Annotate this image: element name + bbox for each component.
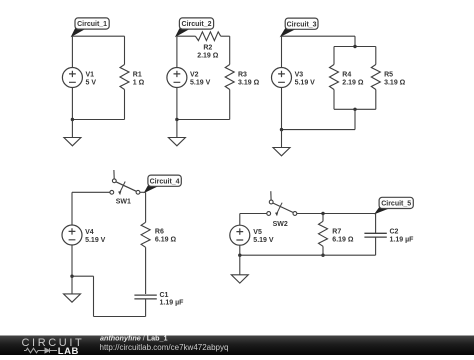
switch SW1 bbox=[113, 170, 115, 179]
svg-text:3.19 Ω: 3.19 Ω bbox=[384, 79, 406, 86]
svg-text:LAB: LAB bbox=[58, 346, 79, 355]
wire C3 top bbox=[282, 35, 356, 37]
wire C5 R7 bottom lead bbox=[322, 246, 324, 255]
wire C5 C2 top lead bbox=[375, 214, 377, 234]
svg-text:C2: C2 bbox=[390, 229, 399, 236]
wire C1 bottom bbox=[72, 119, 124, 121]
svg-text:http://circuitlab.com/ce7kw472: http://circuitlab.com/ce7kw472abpyq bbox=[100, 343, 229, 352]
wire C3 R5 bottom lead bbox=[375, 90, 377, 110]
resistor R6 bbox=[141, 222, 150, 247]
wire C4 bottom bbox=[94, 316, 146, 318]
switch SW2 bbox=[270, 191, 272, 200]
svg-text:R4: R4 bbox=[342, 71, 351, 78]
wire C3 left upper (V3 top lead) bbox=[281, 36, 283, 67]
wire C1 left upper (V1 top lead) bbox=[71, 36, 73, 67]
ground circuit3 bbox=[273, 148, 290, 156]
wire C3 ground stem bbox=[281, 130, 283, 148]
resistor R3 bbox=[225, 65, 234, 90]
junction R7 bottom node bbox=[321, 254, 324, 257]
wire C5 left upper (V5 top lead) bbox=[239, 214, 241, 226]
wire C4 right upper (R6 top lead) bbox=[145, 192, 147, 222]
voltage source V5 bbox=[230, 225, 250, 245]
svg-text:Circuit_3: Circuit_3 bbox=[287, 21, 317, 28]
junction circuit3 bottom node bbox=[280, 128, 283, 131]
svg-text:anthonyfine / Lab_1: anthonyfine / Lab_1 bbox=[100, 334, 168, 343]
svg-text:6.19 Ω: 6.19 Ω bbox=[332, 236, 354, 243]
svg-text:SW1: SW1 bbox=[116, 198, 131, 205]
junction circuit2 bottom node bbox=[175, 118, 178, 121]
wire C3 R4 top lead bbox=[333, 47, 335, 65]
wire C4 C1 bottom lead bbox=[145, 299, 147, 317]
svg-text:Circuit_4: Circuit_4 bbox=[150, 178, 180, 185]
svg-text:Circuit_5: Circuit_5 bbox=[381, 201, 411, 208]
wire C5 top-left lead to SW2 bbox=[240, 213, 267, 215]
resistor R4 bbox=[330, 65, 339, 90]
wire C1 right upper (R1 top lead) bbox=[124, 36, 126, 64]
wire C4 bottom to junction bbox=[72, 275, 94, 277]
wire C3 parallel bottom rail bbox=[334, 108, 376, 110]
wire C5 ground stem bbox=[239, 255, 241, 275]
wire C5 R7 top lead bbox=[322, 214, 324, 222]
wire C3 bottom bbox=[282, 129, 356, 131]
svg-text:V1: V1 bbox=[86, 71, 95, 78]
svg-text:1.19 µF: 1.19 µF bbox=[160, 300, 185, 307]
wire C4 top-left lead to SW1 bbox=[72, 191, 110, 193]
wire C1 right lower (R1 bottom lead) bbox=[124, 90, 126, 120]
wire C3 R5 top lead bbox=[375, 47, 377, 65]
wire C3 R4 bottom lead bbox=[333, 90, 335, 110]
svg-text:V4: V4 bbox=[85, 229, 94, 236]
wire C2 right lower (R3 bottom lead) bbox=[229, 90, 231, 120]
svg-text:SW2: SW2 bbox=[273, 221, 288, 228]
svg-text:Circuit_1: Circuit_1 bbox=[77, 21, 107, 28]
svg-text:5.19 V: 5.19 V bbox=[253, 237, 274, 244]
junction circuit1 bottom node bbox=[71, 118, 74, 121]
ground circuit1 bbox=[64, 138, 81, 146]
junction parallel bottom node bbox=[353, 108, 356, 111]
voltage source V2 bbox=[167, 68, 187, 88]
wire C4 left upper (V4 top lead) bbox=[71, 192, 73, 225]
svg-text:5.19 V: 5.19 V bbox=[295, 79, 316, 86]
node label Circuit_2 bbox=[176, 27, 189, 36]
svg-text:6.19 Ω: 6.19 Ω bbox=[155, 236, 177, 243]
wire C5 SW2 to R7 node bbox=[297, 213, 376, 215]
node label Circuit_5 bbox=[375, 206, 389, 213]
resistor R1 bbox=[120, 65, 129, 90]
voltage source V1 bbox=[62, 68, 82, 88]
svg-text:Circuit_2: Circuit_2 bbox=[182, 21, 212, 28]
junction circuit5 bottom node bbox=[238, 254, 241, 257]
resistor R2 bbox=[195, 32, 220, 41]
wire C2 top-right lead from R2 bbox=[221, 35, 230, 37]
ground circuit2 bbox=[168, 138, 185, 146]
wire C2 bottom bbox=[177, 119, 230, 121]
wire C3 left lower (V3 bottom lead) bbox=[281, 88, 283, 130]
ground circuit4 bbox=[64, 294, 81, 302]
CircuitLab logo mini-schematic (resistor and diode) bbox=[24, 348, 57, 353]
svg-text:1 Ω: 1 Ω bbox=[133, 79, 145, 86]
wire C2 left upper (V2 top lead) bbox=[176, 36, 178, 67]
svg-text:2.19 Ω: 2.19 Ω bbox=[342, 79, 364, 86]
voltage source V4 bbox=[62, 225, 82, 245]
resistor R5 bbox=[371, 65, 380, 90]
svg-text:R3: R3 bbox=[238, 71, 247, 78]
junction R7 top node bbox=[321, 212, 324, 215]
wire C4 R6 to C1 lead bbox=[145, 247, 147, 294]
svg-text:V2: V2 bbox=[190, 71, 199, 78]
wire C2 top-left lead to R2 bbox=[177, 35, 196, 37]
wire C1 top bbox=[72, 35, 124, 37]
wire C1 left lower (V1 bottom lead) bbox=[71, 88, 73, 120]
wire C3 drop from parallel bottom bbox=[354, 109, 356, 129]
svg-text:5 V: 5 V bbox=[86, 79, 97, 86]
node label Circuit_3 bbox=[281, 27, 295, 36]
svg-text:R7: R7 bbox=[332, 228, 341, 235]
capacitor C1 bbox=[134, 295, 156, 299]
junction parallel top node bbox=[353, 45, 356, 48]
resistor R7 bbox=[319, 221, 328, 246]
svg-text:5.19 V: 5.19 V bbox=[190, 79, 211, 86]
junction circuit4 bottom node bbox=[70, 275, 73, 278]
svg-text:R6: R6 bbox=[155, 228, 164, 235]
wire C4 ground stem bbox=[71, 276, 73, 294]
node label Circuit_1 bbox=[72, 27, 85, 36]
svg-text:5.19 V: 5.19 V bbox=[85, 237, 106, 244]
svg-text:C1: C1 bbox=[160, 292, 169, 299]
svg-text:V3: V3 bbox=[295, 71, 304, 78]
ground circuit5 bbox=[231, 275, 248, 283]
wire C2 left lower (V2 bottom lead) bbox=[176, 88, 178, 120]
wire C3 drop to parallel top bbox=[354, 36, 356, 46]
wire C4 SW1 to corner bbox=[140, 191, 146, 193]
svg-text:R5: R5 bbox=[384, 71, 393, 78]
svg-text:R1: R1 bbox=[133, 71, 142, 78]
node label Circuit_4 bbox=[145, 184, 158, 192]
wire C5 bottom bbox=[240, 254, 376, 256]
wire C2 right upper (R3 top lead) bbox=[229, 36, 231, 64]
wire C5 C2 bottom lead bbox=[375, 237, 377, 255]
wire C5 left lower (V5 bottom lead) bbox=[239, 245, 241, 255]
wire C3 parallel top rail bbox=[334, 46, 376, 48]
svg-text:3.19 Ω: 3.19 Ω bbox=[238, 79, 260, 86]
svg-text:2.19 Ω: 2.19 Ω bbox=[197, 53, 219, 60]
wire C2 ground stem bbox=[176, 120, 178, 138]
svg-text:1.19 µF: 1.19 µF bbox=[390, 237, 415, 244]
wire C4 bottom riser bbox=[93, 276, 95, 316]
wire C4 left lower (V4 bottom lead) bbox=[71, 245, 73, 276]
capacitor C2 bbox=[364, 233, 386, 237]
voltage source V3 bbox=[272, 68, 292, 88]
svg-text:R2: R2 bbox=[203, 45, 212, 52]
svg-text:V5: V5 bbox=[253, 229, 262, 236]
wire C1 ground stem bbox=[71, 120, 73, 138]
